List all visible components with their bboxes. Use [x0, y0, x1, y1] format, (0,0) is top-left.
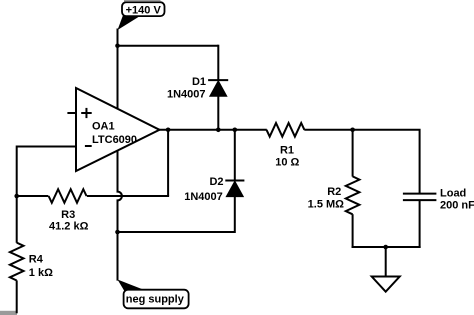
svg-text:LTC6090: LTC6090 — [92, 134, 137, 146]
svg-text:R3: R3 — [61, 209, 75, 221]
svg-text:neg supply: neg supply — [126, 294, 185, 306]
wire R2 top lead — [352, 130, 354, 177]
op-amp U1 OA1 body — [76, 88, 160, 171]
svg-text:41.2 kΩ: 41.2 kΩ — [49, 221, 89, 233]
svg-text:R4: R4 — [29, 254, 44, 266]
wire V+ rail horizontal — [118, 45, 219, 47]
svg-text:Load: Load — [440, 187, 466, 199]
resistor R4 — [10, 243, 24, 281]
wire D2 cathode lead — [234, 130, 236, 181]
wire feedback horizontal to R3 — [87, 196, 168, 197]
svg-text:OA1: OA1 — [92, 120, 115, 132]
wire D2 anode to neg rail — [118, 196, 235, 232]
resistor R3 — [49, 189, 87, 203]
svg-text:R1: R1 — [280, 144, 294, 156]
supply flag neg supply — [118, 280, 189, 309]
wire non-inverting input stub — [67, 112, 76, 114]
svg-text:1N4007: 1N4007 — [184, 191, 223, 203]
wire R4 top lead — [16, 196, 18, 243]
svg-text:1.5 MΩ: 1.5 MΩ — [308, 199, 345, 211]
node junction output feedback tap — [166, 128, 171, 133]
wire V+ junction to op-amp top pin — [117, 45, 119, 110]
supply flag +140 V — [118, 2, 165, 46]
node junction V+ rail — [115, 43, 120, 48]
diode D1 — [208, 80, 228, 96]
node junction D1 anode — [216, 128, 221, 133]
wire D1 anode lead — [217, 96, 219, 130]
svg-text:R2: R2 — [327, 186, 341, 198]
cropped grey box bottom-left — [0, 311, 17, 315]
svg-text:200 nF: 200 nF — [440, 200, 474, 212]
wire bottom rail to ground — [352, 246, 421, 248]
resistor R2 — [346, 176, 360, 214]
svg-text:10 Ω: 10 Ω — [275, 156, 299, 168]
ground symbol — [372, 277, 400, 292]
wire D1 cathode lead — [217, 45, 219, 80]
wire ground stem — [385, 247, 387, 277]
cropped grey box top edge — [124, 0, 161, 2]
diode D2 — [225, 181, 244, 197]
wire cap bottom lead — [419, 200, 421, 248]
svg-text:1N4007: 1N4007 — [167, 88, 206, 100]
svg-text:D1: D1 — [192, 76, 206, 88]
wire R2 bottom lead — [352, 214, 354, 248]
node junction R1-R2 — [350, 128, 355, 133]
wire R4 bottom lead — [16, 280, 18, 313]
resistor R1 — [267, 123, 305, 137]
capacitor Load — [403, 194, 437, 201]
node junction D2 cathode — [233, 128, 238, 133]
svg-text:+140 V: +140 V — [126, 5, 162, 17]
wire op-amp bottom pin to neg supply with hop over feedback — [118, 151, 122, 281]
node junction ground — [383, 245, 388, 250]
svg-text:D2: D2 — [209, 176, 223, 188]
svg-text:1 kΩ: 1 kΩ — [29, 267, 53, 279]
wire inverting input — [17, 147, 76, 198]
wire feedback drop from output — [167, 130, 169, 196]
node junction neg rail D2 return — [115, 230, 120, 235]
wire R1 to cap corner — [304, 130, 419, 194]
wire R3 left lead — [17, 195, 49, 197]
wire op-amp output to R1 — [160, 129, 267, 131]
node junction R3-R4 inverting — [14, 194, 19, 199]
